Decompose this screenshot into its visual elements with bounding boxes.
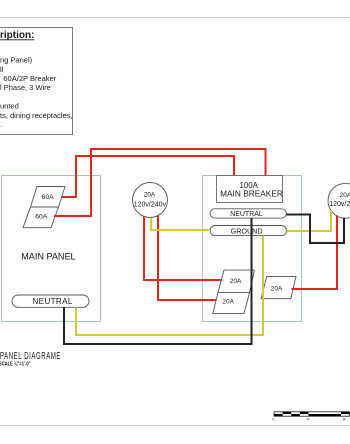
svg-text:8': 8' <box>343 417 346 422</box>
svg-text:NEUTRAL: NEUTRAL <box>230 211 263 218</box>
svg-text:60A: 60A <box>35 214 48 221</box>
svg-text:PANEL DIAGRAME: PANEL DIAGRAME <box>0 351 61 362</box>
svg-text:120v/240v: 120v/240v <box>134 201 167 208</box>
svg-text:20A: 20A <box>271 286 283 293</box>
svg-text:60A/2P Breaker: 60A/2P Breaker <box>3 74 56 83</box>
svg-text:20A: 20A <box>144 192 156 199</box>
svg-text:.: . <box>0 120 2 129</box>
svg-text:MAIN PANEL: MAIN PANEL <box>21 251 75 261</box>
svg-text:ts, dining receptacles,: ts, dining receptacles, <box>0 111 73 120</box>
svg-text:120v/240v: 120v/240v <box>329 201 350 208</box>
svg-text:MAIN BREAKER: MAIN BREAKER <box>220 188 283 198</box>
svg-text:4': 4' <box>307 417 310 422</box>
svg-text:l Phase, 3 Wire: l Phase, 3 Wire <box>0 83 51 92</box>
svg-text:ription:: ription: <box>0 30 34 41</box>
svg-text:unted: unted <box>0 102 19 111</box>
svg-text:20A: 20A <box>340 192 350 199</box>
svg-text:NEUTRAL: NEUTRAL <box>32 297 72 306</box>
svg-text:ng Panel): ng Panel) <box>0 56 33 65</box>
svg-text:20A: 20A <box>230 278 242 285</box>
svg-text:60A: 60A <box>42 194 55 201</box>
svg-text:ll: ll <box>0 65 4 74</box>
svg-text:GROUND: GROUND <box>231 227 263 236</box>
svg-text:SCALE ⅜"=1'-0": SCALE ⅜"=1'-0" <box>0 361 31 366</box>
svg-text:20A: 20A <box>222 299 234 306</box>
